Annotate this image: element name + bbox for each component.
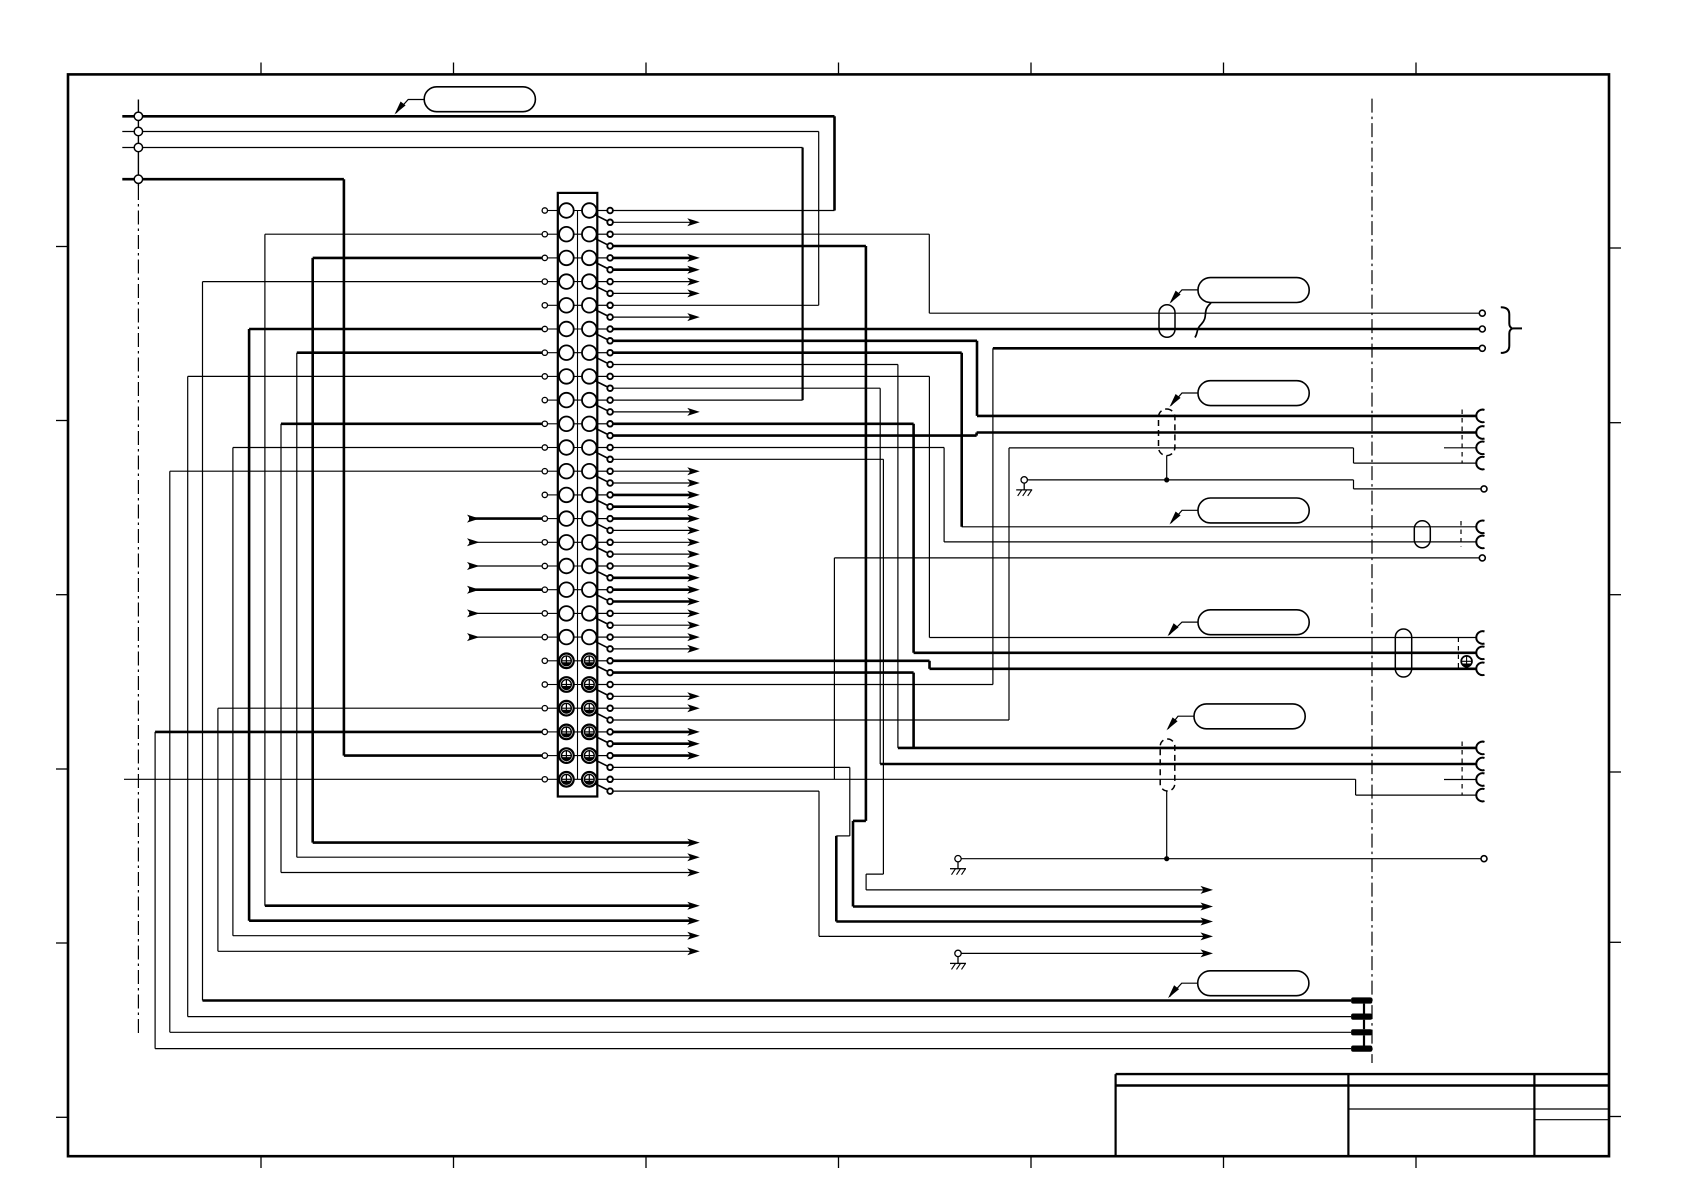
terminal circle G1 wire3: [1479, 345, 1485, 351]
incoming signal arrow into row R16 left pin: [469, 565, 542, 567]
ground symbol E1: [1021, 477, 1027, 483]
connector G2 socket3 with stub: [1476, 441, 1484, 454]
crimp terminal bar 4: [1351, 1046, 1372, 1052]
wire S1l joining G5 wire1 (thick): [613, 671, 914, 674]
wire left of terminal row R8: [188, 375, 545, 377]
wire S6u to connector group G5 wire3: [613, 778, 1356, 780]
ground symbol E3: [955, 950, 961, 956]
terminal row S2 contacts: [548, 684, 558, 686]
wire R7l to connector group G5 wire1: [613, 364, 898, 366]
terminal row R18 contacts: [548, 612, 558, 614]
shielded cable dashed ellipse of G5: [1160, 739, 1175, 791]
terminal row R13 contacts: [548, 494, 558, 496]
wire R2u to connector group G1 wire1: [613, 233, 930, 235]
wire short output with arrow: [613, 624, 691, 626]
incoming signal arrow into row R15 left pin: [469, 541, 542, 543]
wire short output with arrow: [613, 553, 691, 555]
leader of callout C4: [1171, 510, 1198, 523]
brace bracket of G1: [1501, 307, 1513, 353]
terminal row S5 contacts: [548, 755, 558, 757]
terminal circle end of E2 wire: [1481, 856, 1487, 862]
callout label C5: [1198, 610, 1309, 635]
crimp terminal bar 3: [1351, 1029, 1372, 1035]
terminal row R4 contacts: [548, 281, 558, 283]
terminal row R2 contacts: [548, 233, 558, 235]
wire short output with arrow: [613, 529, 691, 531]
wire left of terminal row R7: [297, 351, 545, 354]
terminal row R16 contacts: [548, 565, 558, 567]
callout label C3: [1198, 381, 1309, 406]
wire short output with arrow: [613, 695, 691, 697]
terminal circle end of E1 wire: [1481, 486, 1487, 492]
incoming signal arrow into row R18 left pin: [469, 612, 542, 614]
wire shield drain of G5 ellipse: [1166, 791, 1168, 859]
wire short output with arrow: [613, 517, 691, 520]
wire S2u to connector group G1 wire3: [613, 684, 993, 686]
terminal row R10 contacts: [548, 423, 558, 425]
wire from ground E1 to connector (shield drain): [1027, 479, 1353, 481]
wire short output with arrow: [613, 470, 691, 472]
incoming signal arrow into row R14 left pin: [469, 517, 542, 520]
wire left of terminal row R2: [265, 233, 545, 235]
wire short output with arrow: [613, 588, 691, 591]
connector G3 socket1: [1476, 520, 1484, 533]
connector G5 socket2: [1476, 758, 1484, 771]
wire left of terminal row R6: [249, 328, 545, 331]
left vertical center line (dash-dot): [137, 100, 139, 187]
terminal circle G1 wire2: [1479, 326, 1485, 332]
wire short output with arrow: [613, 754, 691, 757]
connector G4 socket3: [1476, 663, 1484, 676]
crimp terminal bar 1: [1351, 997, 1372, 1003]
wire S6l to sheet arrow a4: [613, 790, 819, 792]
connector G2 socket2: [1476, 426, 1484, 439]
frame zone ticks left: [56, 246, 68, 248]
callout label C1: [424, 87, 535, 112]
link stubs between crimp bars: [1363, 1004, 1365, 1014]
terminal row R19 contacts: [548, 636, 558, 638]
wire short output with arrow: [613, 731, 691, 734]
wire from ground E2 to terminal circle: [961, 858, 1481, 860]
terminal row R1 contacts: [548, 210, 558, 212]
terminal row R11 contacts: [548, 447, 558, 449]
wire short output with arrow: [613, 268, 691, 271]
callout label C7: [1198, 971, 1309, 996]
shielded cable dashed ellipse of G2: [1159, 409, 1175, 456]
terminal row S3 contacts: [548, 707, 558, 709]
leader of callout C5: [1169, 622, 1198, 635]
wire short output with arrow: [613, 221, 691, 223]
terminal circle G1 wire1: [1479, 310, 1485, 316]
terminal circle G3 wire3: [1479, 555, 1485, 561]
node W1 junction circle: [134, 112, 142, 120]
frame zone ticks right: [1609, 247, 1621, 249]
leader of callout C7: [1170, 983, 1198, 997]
terminal row R7 contacts: [548, 352, 558, 354]
frame zone ticks bottom: [260, 1156, 262, 1168]
wire short output with arrow: [613, 742, 691, 745]
connector G5 socket4: [1476, 789, 1484, 802]
twist mark squiggle of G1: [1195, 303, 1211, 338]
terminal block TB outline: [558, 193, 598, 797]
wire R6u to connector group G1 wire2 (thick): [613, 328, 1479, 331]
connector G4 socket1: [1476, 631, 1484, 644]
title block right cell divider1: [1534, 1108, 1609, 1110]
wire S5l to sheet arrow a3: [613, 766, 850, 768]
node W2 junction circle: [134, 127, 142, 135]
terminal row S1 contacts: [548, 660, 558, 662]
wire short output with arrow: [613, 505, 691, 508]
wire W4 top bus (thick): [122, 178, 344, 181]
wire R1u to bus W1: [613, 210, 835, 212]
node shield junction of G5: [1164, 856, 1169, 861]
title block divider V2: [1533, 1074, 1535, 1156]
wire short output with arrow: [613, 292, 691, 294]
wire short output with arrow: [613, 257, 691, 260]
incoming signal arrow into row R19 left pin: [469, 636, 542, 638]
right vertical center line (dash-dot): [1371, 99, 1373, 1063]
wire G3 wire3 with link down to G5 wire3: [834, 557, 1479, 559]
connector G5 boundary dashed line: [1461, 742, 1463, 796]
wire left of terminal row S4: [155, 731, 545, 734]
twisted cable ellipse of G4: [1395, 629, 1411, 677]
terminal row R17 contacts: [548, 589, 558, 591]
terminal block internal bus line: [577, 211, 579, 780]
wire left of terminal row S3: [218, 707, 545, 709]
connector G2 socket1: [1476, 410, 1484, 423]
wire left of terminal row R12: [170, 470, 545, 472]
wire short output with arrow: [613, 636, 691, 638]
leader of callout C3: [1171, 393, 1198, 406]
wire left of terminal row S6: [124, 778, 545, 780]
terminal row S4 contacts: [548, 731, 558, 733]
node shield junction of G2: [1164, 477, 1169, 482]
wire left of terminal row R11: [233, 447, 545, 449]
wire R10u to connector group G4 wire2 (thick): [613, 422, 914, 425]
frame zone ticks top: [260, 63, 262, 75]
node W3 junction circle: [134, 143, 142, 151]
terminal row R8 contacts: [548, 375, 558, 377]
callout label C6: [1194, 704, 1305, 729]
wire short output with arrow: [613, 612, 691, 614]
title block divider V1: [1347, 1074, 1349, 1156]
wire from ground E3 to sheet arrow a5: [961, 952, 1204, 954]
connector G5 socket3 with stub: [1476, 773, 1484, 786]
title block middle cell divider: [1348, 1108, 1534, 1110]
connector G5 socket1: [1476, 742, 1484, 755]
connector G2 socket4: [1476, 457, 1484, 470]
wire R10l to connector group G2 wire2 (thick): [613, 434, 977, 437]
terminal row R15 contacts: [548, 541, 558, 543]
wire short output with arrow: [613, 565, 691, 567]
node W4 junction circle: [134, 175, 142, 183]
protective earth screw of G4: [1461, 656, 1472, 667]
wire W1 top bus (thick): [122, 115, 834, 118]
ground symbol E2: [955, 856, 961, 862]
wire R11l to sheet arrow a1: [613, 458, 884, 460]
brace tick of G1: [1513, 327, 1522, 329]
wire short output with arrow: [613, 411, 691, 413]
title block outline: [1114, 1074, 1116, 1156]
connector G2 boundary dashed line: [1461, 410, 1463, 464]
title block right cell divider2: [1534, 1119, 1609, 1121]
terminal row R14 contacts: [548, 518, 558, 520]
connector G3 socket2: [1476, 536, 1484, 549]
wire left of terminal row R10: [281, 422, 545, 425]
callout label C2: [1198, 278, 1309, 303]
wire left of terminal row R3: [313, 257, 545, 260]
wire R2l to sheet arrow a2 (thick): [613, 245, 866, 248]
wire short output with arrow: [613, 541, 691, 543]
connector G3 boundary dashed line: [1460, 521, 1462, 547]
wire short output with arrow: [613, 648, 691, 650]
wire short output with arrow: [613, 281, 691, 283]
wire R9u to bus W3: [613, 399, 803, 401]
terminal row R3 contacts: [548, 257, 558, 259]
terminal row S6 contacts: [548, 778, 558, 780]
terminal row R12 contacts: [548, 470, 558, 472]
wire short output with arrow: [613, 494, 691, 497]
wire short output with arrow: [613, 576, 691, 579]
wire shield drain of G2 ellipse: [1166, 456, 1168, 480]
wire S3l to connector group G2 wire4: [613, 719, 1009, 721]
wire left of terminal row R4: [203, 281, 545, 283]
twisted pair ellipse of G1: [1159, 305, 1175, 338]
callout label C4: [1198, 498, 1309, 523]
wire short output with arrow: [613, 482, 691, 484]
leader of callout C2: [1171, 290, 1198, 302]
wire R5u to bus W2: [613, 304, 819, 306]
wire short output with arrow: [613, 707, 691, 709]
connector G4 socket2: [1476, 646, 1484, 659]
connector G4 boundary dashed line: [1457, 638, 1459, 669]
incoming signal arrow into row R17 left pin: [469, 588, 542, 591]
wire R8l to connector group G5 wire2: [613, 387, 880, 389]
wire R7u to connector group G3 wire1 (thick): [613, 351, 962, 354]
leader of callout C6: [1168, 716, 1194, 729]
wire R8u to connector group G4 wire1: [613, 375, 930, 377]
wire R6l to connector group G2 wire1 (thick): [613, 339, 977, 342]
wire R11u to connector group G3 wire2: [613, 447, 944, 449]
terminal row R5 contacts: [548, 304, 558, 306]
wire W3 top bus: [122, 147, 802, 149]
wire W2 top bus: [122, 131, 818, 133]
leader of callout C1: [396, 100, 424, 114]
terminal row R9 contacts: [548, 399, 558, 401]
twisted pair ellipse of G3: [1414, 521, 1430, 548]
terminal row R6 contacts: [548, 328, 558, 330]
wire short output with arrow: [613, 600, 691, 603]
wire short output with arrow: [613, 316, 691, 318]
crimp terminal bar 2: [1351, 1014, 1372, 1020]
wire S1u to connector group G4 wire3 (thick): [613, 659, 930, 662]
